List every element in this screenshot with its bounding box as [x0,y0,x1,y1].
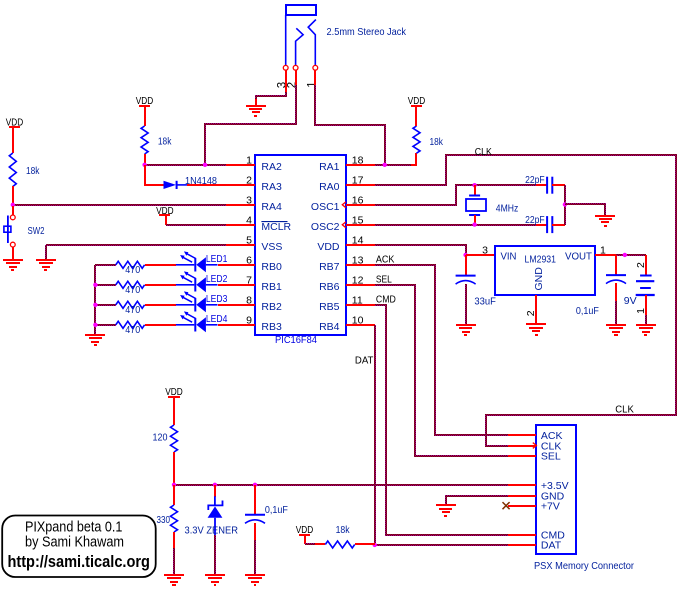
svg-text:2: 2 [635,262,647,268]
svg-text:2: 2 [246,175,252,187]
wire R to LED4 [145,324,176,326]
ground jack sleeve [246,106,266,116]
svg-text:8: 8 [246,295,252,307]
svg-text:DAT: DAT [355,355,374,367]
power VDD (bottom) [165,386,183,398]
svg-text:LED4: LED4 [206,313,228,325]
svg-text:MCLR: MCLR [261,221,291,233]
svg-text:470: 470 [125,284,140,296]
svg-text:RB3: RB3 [261,321,282,333]
svg-text:330: 330 [157,514,171,526]
svg-text:7: 7 [246,275,252,287]
junction rail at 120/330 [172,483,176,487]
wire jack pin3 lead [285,70,287,93]
wire SW2 to ground [12,247,14,260]
svg-text:12: 12 [352,275,364,287]
wire LED cathode bus [94,265,96,334]
junction OSC2 at crystal [472,222,476,226]
wire caps to ground [565,204,605,215]
jack pin 3 terminal [283,65,288,70]
pin OSC1 input arrow [342,202,346,208]
diode D1 1N4148 [164,181,188,189]
svg-text:1: 1 [306,81,318,87]
wire node RA4 to pin RA4 [13,204,226,206]
svg-text:11: 11 [352,295,363,307]
svg-text:RB6: RB6 [319,281,340,293]
svg-text:18k: 18k [26,165,40,177]
svg-text:2: 2 [525,310,537,316]
wire rail to R 330 [173,485,175,505]
PSX pin SEL stub [508,455,536,457]
svg-text:SW2: SW2 [28,225,45,237]
PSX pin CLK stub [508,445,536,447]
junction LED bus [93,283,97,287]
wire 18k left lead [315,543,325,545]
wire regulator GND to ground [535,295,537,324]
wire 18k to node RA2 [144,154,146,165]
capacitor C5 0.1uF [245,515,265,524]
wire zener to ground [214,535,216,574]
wire jack pin1 lead [314,70,316,86]
pin 5 VSS stub [226,244,255,246]
ground LED bus [85,335,105,345]
svg-text:RB5: RB5 [319,301,340,313]
PSX CLK input arrow [533,443,537,449]
svg-text:18: 18 [352,155,364,167]
svg-text:DAT: DAT [541,540,562,552]
wire VDD to R 18k [144,106,146,126]
wire jack pin2 lead [295,70,297,86]
wire 0.1uF lead [615,283,617,302]
connector J1 2.5mm stereo jack body [286,5,316,65]
junction rail at 0.1uF [253,483,257,487]
wire R to LED1 [145,264,176,266]
wire net CLK from pin RA0 to PSX CLK [375,155,676,446]
wire node VOUT to battery [616,254,646,256]
ground 0.1uF bottom [245,575,265,585]
wire net +3.5V rail to PSX [174,484,508,486]
jack pin 1 terminal [313,65,318,70]
wire jack pin3 to ground [256,92,286,100]
LED4 diode [176,311,218,332]
wire rail to C 0.1uF [254,485,256,515]
PSX pin CMD stub [508,534,536,536]
pin 16 OSC1 stub [346,204,375,206]
svg-text:470: 470 [125,324,140,336]
capacitor C3 33uF [456,276,476,285]
svg-text:18k: 18k [336,524,351,536]
svg-text:SEL: SEL [376,274,392,286]
junction LED bus [93,303,97,307]
switch SW2 [4,215,15,247]
wire net DAT from pin RB4 to PSX DAT [375,325,508,545]
svg-text:RB7: RB7 [319,261,340,273]
wire battery top lead [645,255,647,276]
junction OSC1 at crystal [472,183,476,187]
junction rail at zener [213,483,217,487]
wire battery to ground [645,315,647,324]
ground 330 [164,575,184,585]
svg-text:470: 470 [125,264,140,276]
title box PIXpand [2,516,156,578]
regulator U2 LM2931 body [495,246,595,295]
pin 12 RB6 stub [346,284,375,286]
svg-text:RB4: RB4 [319,321,340,333]
ground crystal caps [595,216,615,226]
ground PSX [436,505,456,516]
wire VDD to 18k [415,106,417,126]
PSX pin +7V stub [508,505,536,507]
svg-text:OSC1: OSC1 [311,201,340,213]
pin 9 RB3 stub [226,324,255,326]
wire ground lead [255,99,257,105]
resistor 470 (LED4) [116,321,145,328]
svg-text:RA0: RA0 [319,181,340,193]
connector J2 PSX memory body [536,425,576,554]
PSX pin GND stub [508,495,536,497]
wire regulator pin 1 out [595,254,616,256]
svg-text:SEL: SEL [541,451,561,463]
junction node DAT [373,543,377,547]
wire bus to R 470 row 2 [95,284,116,286]
wire to cap [536,184,547,186]
svg-text:RA1: RA1 [319,161,340,173]
svg-text:33uF: 33uF [474,296,496,308]
ground regulator [526,324,546,335]
svg-text:VDD: VDD [317,241,340,253]
wire 18k to node RA4 [12,186,14,205]
svg-text:LED2: LED2 [206,273,228,285]
wire 0.1uF to ground [254,540,256,574]
svg-text:470: 470 [125,304,140,316]
svg-text:13: 13 [352,255,364,267]
pin 17 RA0 stub [346,184,375,186]
pin 2 RA3 stub [226,184,255,186]
resistor 18k (RA1 pull-up) [413,126,420,153]
resistor 470 (LED2) [116,281,145,288]
wire 18k lower lead [411,153,416,165]
wire node RA2 down to diode [145,165,164,185]
wire node VIN to C 33uF [465,255,467,276]
wire 120 to +3.5V rail [173,452,175,485]
svg-text:9V: 9V [624,295,637,307]
LED3 diode [176,291,218,312]
power VDD (MCLR) [156,205,174,217]
wire 0.1uF to ground [615,301,617,324]
wire VDD to R 120 [173,397,175,425]
svg-text:CLK: CLK [475,146,492,158]
svg-text:PSX Memory Connector: PSX Memory Connector [534,560,634,572]
wire pin OSC2 to C 22pF [375,224,537,226]
svg-text:120: 120 [153,432,168,444]
wire VSS down to ground [45,245,47,260]
wire pin VSS [46,244,226,246]
svg-text:0,1uF: 0,1uF [576,305,599,317]
power VDD (right) [408,95,426,107]
wire down to C 0.1uF [615,255,617,275]
wire LED3 to pin RB2 [218,304,255,306]
ground SW2 [3,260,23,270]
wire pin RA1 to 18k [375,164,411,166]
ground battery [636,325,656,335]
resistor 330 [171,505,178,532]
pin 13 RB7 stub [346,264,375,266]
wire cap to vertical [552,184,565,186]
svg-text:OSC2: OSC2 [311,221,340,233]
wire diode to pin RA3 [187,184,255,186]
power VDD (DAT pull-up) [296,524,314,536]
svg-text:3.3V ZENER: 3.3V ZENER [185,525,239,537]
capacitor C1 22pF plates [547,177,552,194]
power VDD (left) [6,116,24,128]
resistor 470 (LED3) [116,301,145,308]
wire net SEL from pin RB6 to PSX SEL [375,285,508,456]
svg-text:18k: 18k [158,136,172,148]
wire node RA2 to pin RA2 [145,164,226,166]
svg-text:4MHz: 4MHz [496,203,519,215]
LED1 diode [176,251,218,272]
svg-text:RB1: RB1 [261,281,282,293]
ground zener [205,575,225,585]
capacitor C2 22pF plates [547,216,552,233]
wire to 18k [305,543,315,545]
svg-text:RA3: RA3 [261,181,282,193]
wire caps common [564,185,566,225]
svg-text:17: 17 [352,175,364,187]
svg-text:16: 16 [352,195,364,207]
junction node RA2 at jack wire [203,163,207,167]
wire PSX GND to ground [446,496,508,505]
ground 0.1uF [606,325,626,335]
wire to cap2 [536,224,547,226]
wire 18k to node DAT [355,543,375,545]
resistor 18k (DAT pull-up) [325,541,354,548]
no-connect X on +7V [503,502,510,509]
wire net CMD from pin RB5 to PSX CMD [375,305,508,535]
svg-text:2.5mm Stereo Jack: 2.5mm Stereo Jack [327,26,407,38]
pin 14 VDD stub [346,244,375,246]
svg-text:RB0: RB0 [261,261,282,273]
ground VSS [36,260,56,270]
svg-text:ACK: ACK [376,254,395,266]
pin 3 RA4 stub [226,204,255,206]
resistor 470 (LED1) [116,261,145,268]
junction node VOUT [623,253,627,257]
wire battery bottom lead [645,295,647,316]
power VDD (middle) [136,95,154,107]
wire jack pin2 to node RA2 [205,85,296,165]
svg-text:14: 14 [352,235,364,247]
pin 10 RB4 stub [346,324,375,326]
wire 33uF to ground [465,284,467,324]
svg-text:by Sami Khawam: by Sami Khawam [25,534,124,551]
svg-text:22pF: 22pF [525,214,545,226]
LED2 diode [176,271,218,292]
wire R to LED3 [145,304,176,306]
wire to pin MCLR [166,224,226,226]
ground 33uF [456,325,476,335]
pin 7 RB1 stub [226,284,255,286]
wire cap to vertical [552,224,565,226]
svg-text:http://sami.ticalc.org: http://sami.ticalc.org [7,553,150,571]
PSX pin DAT stub [508,544,536,546]
junction LED bus [93,323,97,327]
svg-text:LED1: LED1 [206,253,228,265]
svg-text:22pF: 22pF [525,174,545,186]
svg-text:VIN: VIN [501,251,517,263]
svg-text:6: 6 [246,255,252,267]
wire LED2 to pin RB1 [218,284,255,286]
resistor 18k (RA2 pull-up) [141,126,148,154]
pin 18 RA1 stub [346,164,375,166]
svg-text:RB2: RB2 [261,301,282,313]
wire pin OSC1 to crystal and C 22pF [375,185,537,205]
capacitor C4 0.1uF [606,275,626,284]
svg-text:+7V: +7V [541,500,560,512]
resistor 18k (left pull-up) [9,153,16,186]
wire bus to R 470 row 3 [95,304,116,306]
svg-text:RA2: RA2 [261,161,282,173]
pin 15 OSC2 stub [346,224,375,226]
svg-text:RA4: RA4 [261,201,282,213]
resistor 120 [171,425,178,452]
wire crystal top lead [474,185,476,196]
svg-text:LED3: LED3 [206,293,228,305]
wire LED4 to pin RB3 [218,324,255,326]
pin 11 RB5 stub [346,304,375,306]
wire VDD to R 18k [12,127,14,153]
wire 330 lead [173,532,175,549]
svg-text:3: 3 [246,195,252,207]
svg-text:18k: 18k [430,136,444,148]
junction caps to ground [563,202,567,206]
junction node RA4 / SW2 [11,203,15,207]
svg-text:GND: GND [533,267,545,291]
wire rail to zener [214,485,216,497]
pin 4 MCLR stub [226,224,255,226]
svg-text:0,1uF: 0,1uF [265,504,288,516]
svg-text:5: 5 [246,235,252,247]
svg-text:9: 9 [246,315,252,327]
crystal X1 4MHz [466,196,486,216]
wire net ACK from pin RB7 to PSX ACK [375,265,508,435]
wire 330 to ground [173,548,175,574]
pin 8 RB2 stub [226,304,255,306]
svg-text:CLK: CLK [615,403,634,415]
svg-text:CMD: CMD [376,294,396,306]
wire bus to R 470 row 4 [95,324,116,326]
wire crystal bottom lead [474,215,476,225]
wire 0.1uF lead [254,523,256,541]
svg-text:1: 1 [600,245,606,257]
wire VDD down [165,215,167,225]
diode D2 3.3V zener [208,496,223,535]
svg-text:4: 4 [246,215,252,227]
wire to SW2 [12,206,14,215]
wire jack pin1 to node RA1 [315,85,385,165]
svg-text:PIC16F84: PIC16F84 [275,334,317,346]
pin 6 RB0 stub [226,264,255,266]
svg-text:10: 10 [352,315,364,327]
IC U1 PIC16F84 body [255,155,346,335]
svg-text:LM2931: LM2931 [525,254,557,266]
wire pin VDD to node VIN [375,245,466,255]
battery B1 9V [636,276,655,296]
pin OSC2 input arrow [342,222,346,228]
PSX pin ACK stub [508,434,536,436]
wire VDD down [304,535,306,544]
svg-text:3: 3 [482,245,488,257]
jack pin 2 terminal [293,65,298,70]
junction node RA1 [383,163,387,167]
svg-text:VSS: VSS [261,241,282,253]
wire bus to R 470 row 1 [95,264,116,266]
PSX pin +3.5V stub [508,484,536,486]
svg-text:VOUT: VOUT [565,251,593,263]
wire node VIN to regulator pin 3 [466,254,495,256]
svg-text:15: 15 [352,215,364,227]
junction node RA2 at 18k [142,163,146,167]
svg-text:1: 1 [246,155,252,167]
wire R to LED2 [145,284,176,286]
pin 1 RA2 stub [226,164,255,166]
wire LED1 to pin RB0 [218,264,255,266]
junction node VIN [463,253,467,257]
